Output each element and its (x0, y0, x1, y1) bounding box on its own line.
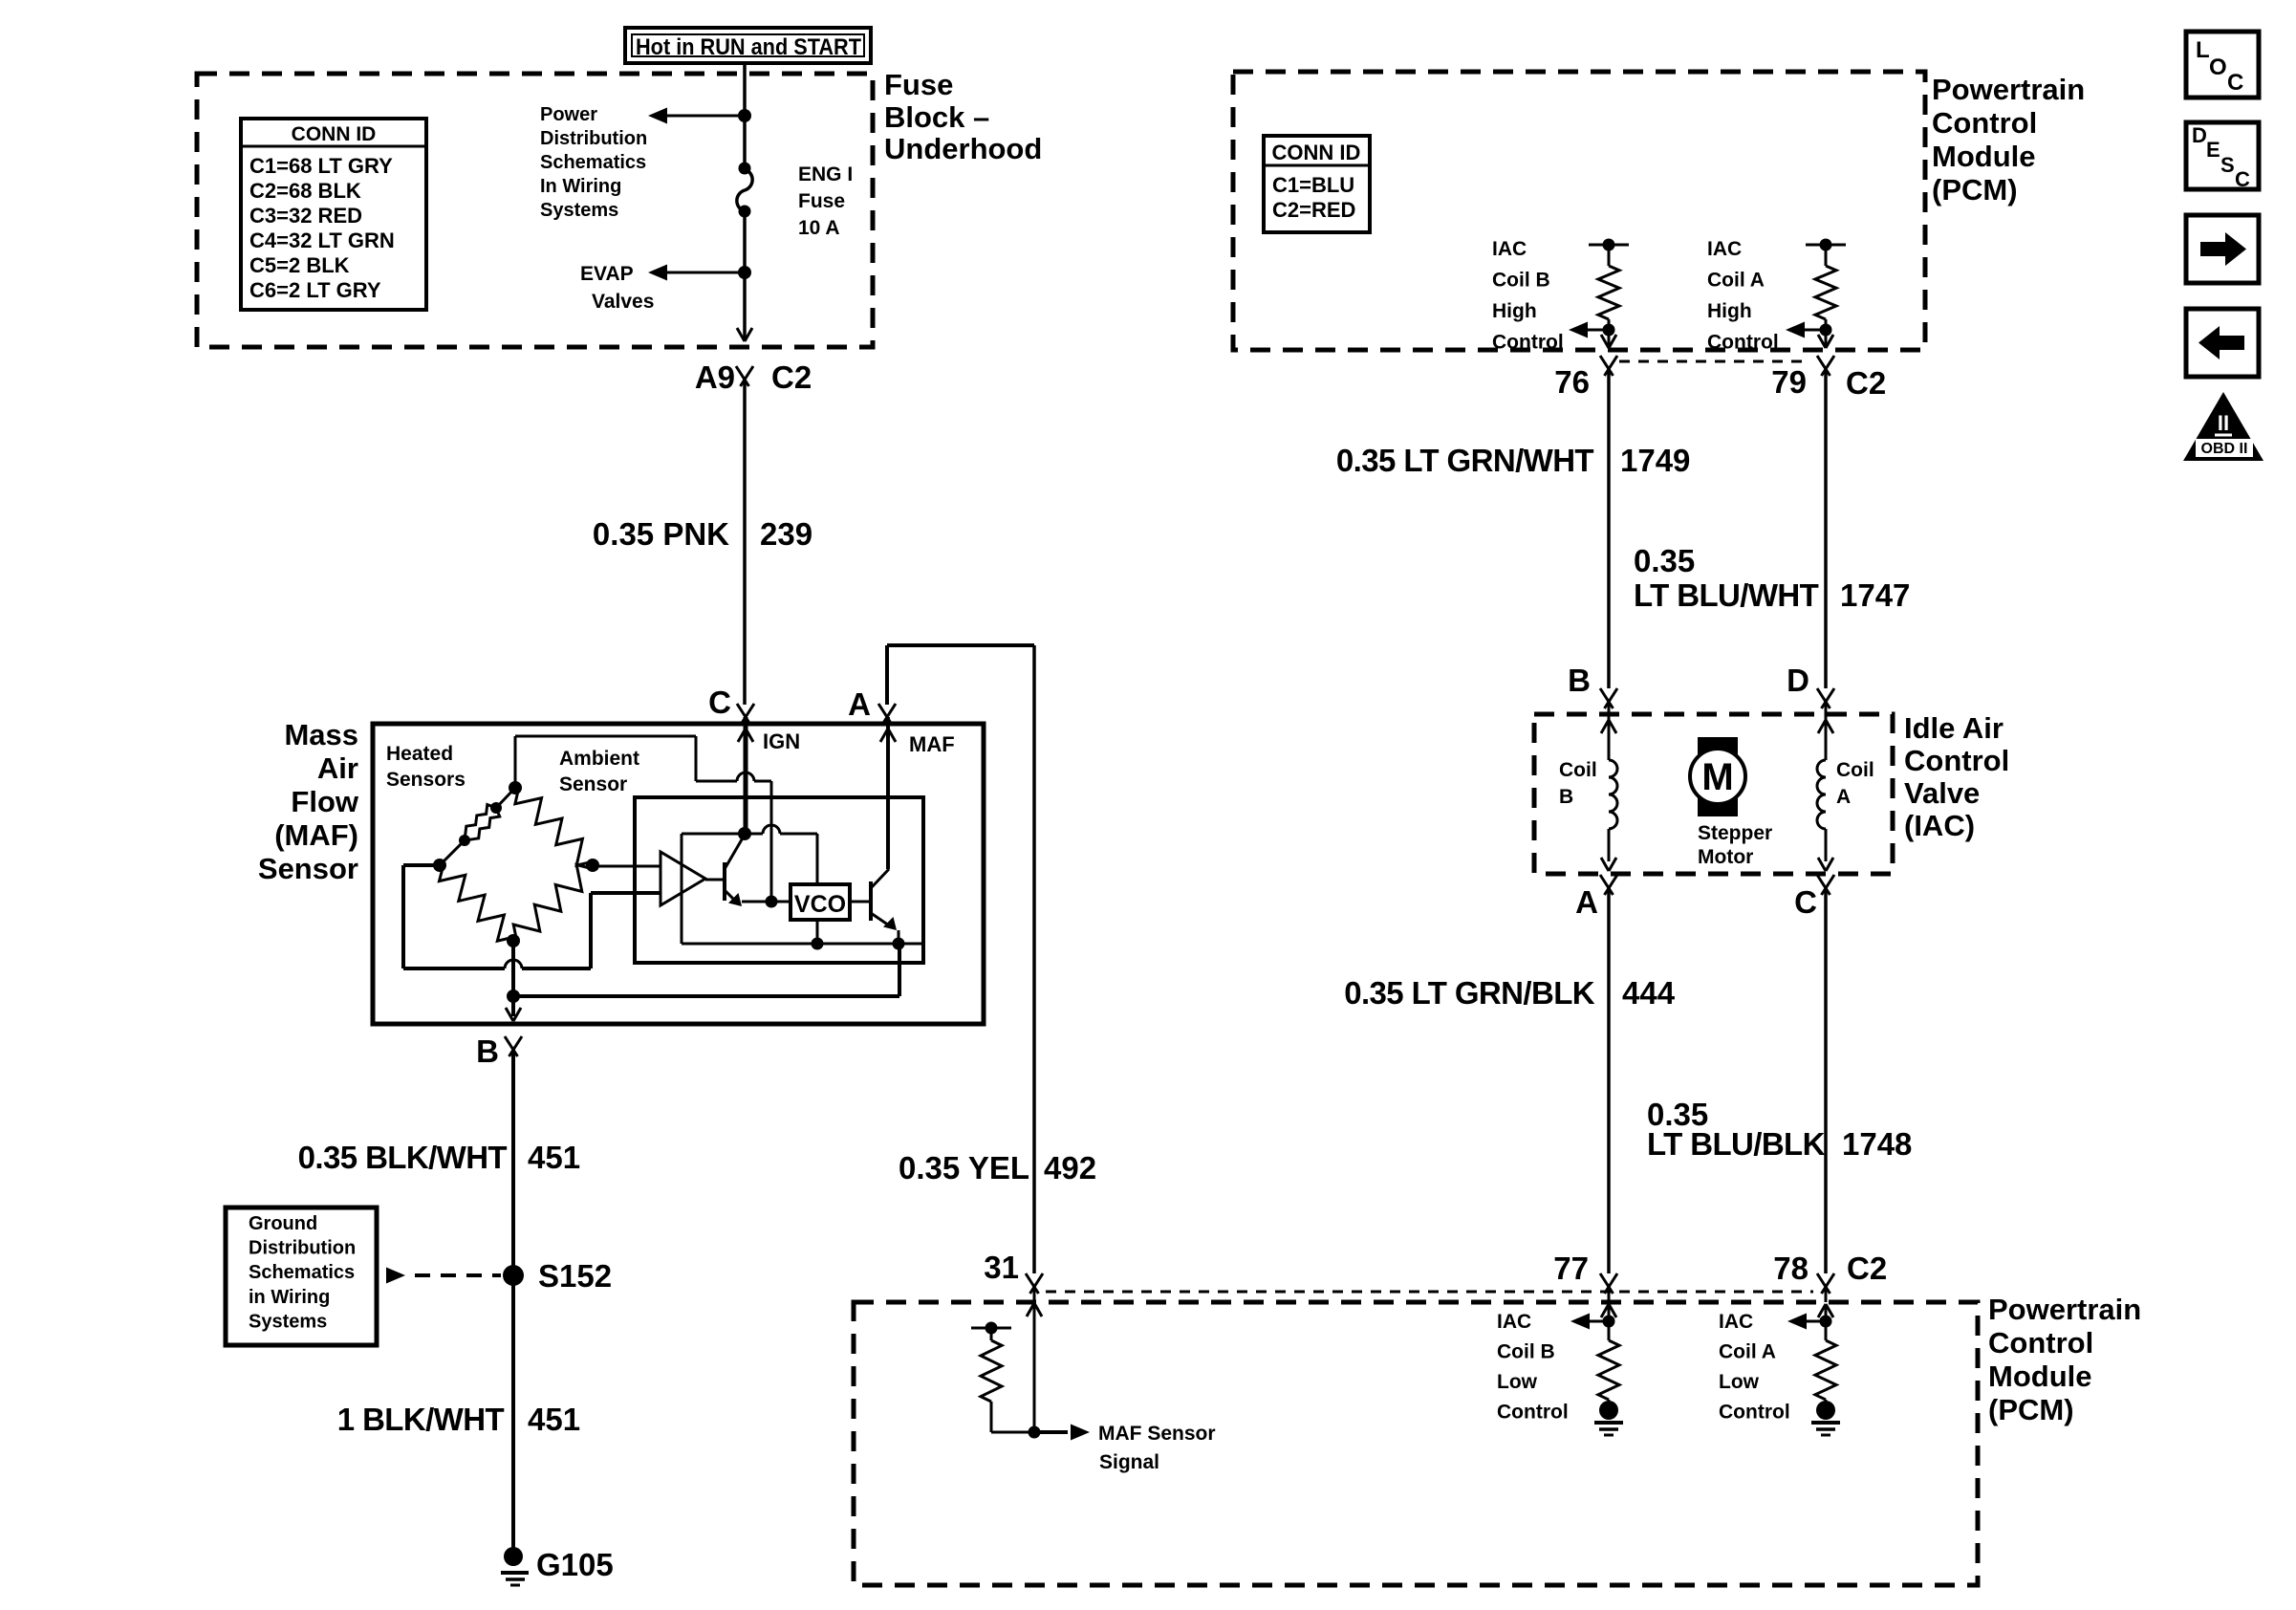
svg-text:78: 78 (1773, 1251, 1809, 1286)
svg-text:Distribution: Distribution (540, 128, 647, 149)
svg-text:Control: Control (1492, 332, 1564, 354)
svg-text:IGN: IGN (763, 729, 800, 753)
svg-text:C2: C2 (1846, 365, 1886, 401)
svg-text:A: A (1836, 786, 1851, 808)
svg-text:B: B (476, 1033, 499, 1069)
svg-text:Coil A: Coil A (1719, 1341, 1776, 1363)
svg-text:Air: Air (317, 751, 358, 785)
svg-text:In Wiring: In Wiring (540, 176, 621, 197)
svg-text:79: 79 (1771, 364, 1807, 400)
svg-text:C3=32 RED: C3=32 RED (249, 204, 362, 228)
svg-text:(PCM): (PCM) (1988, 1393, 2074, 1426)
svg-text:492: 492 (1044, 1150, 1096, 1186)
svg-text:Coil B: Coil B (1492, 270, 1550, 292)
svg-text:B: B (1568, 663, 1591, 698)
svg-text:C: C (2235, 167, 2250, 191)
svg-text:C: C (1794, 884, 1817, 920)
svg-text:MAF: MAF (909, 732, 955, 756)
svg-text:Control: Control (1932, 106, 2037, 140)
svg-text:Control: Control (1719, 1402, 1790, 1424)
svg-text:Stepper: Stepper (1698, 822, 1772, 844)
svg-text:C2=68 BLK: C2=68 BLK (249, 179, 361, 203)
svg-text:0.35 LT GRN/BLK: 0.35 LT GRN/BLK (1344, 975, 1595, 1011)
svg-text:Ambient: Ambient (559, 748, 639, 770)
svg-text:CONN ID: CONN ID (1272, 141, 1361, 164)
svg-text:Distribution: Distribution (249, 1238, 356, 1259)
svg-text:451: 451 (528, 1140, 580, 1175)
svg-text:Control: Control (1707, 332, 1779, 354)
svg-text:1748: 1748 (1842, 1126, 1912, 1162)
svg-text:0.35 PNK: 0.35 PNK (593, 516, 729, 552)
svg-text:II: II (2218, 411, 2229, 435)
svg-text:L: L (2196, 37, 2210, 63)
svg-text:C4=32 LT GRN: C4=32 LT GRN (249, 228, 395, 252)
svg-text:Fuse: Fuse (884, 68, 953, 101)
svg-text:Module: Module (1988, 1360, 2092, 1393)
svg-text:Valve: Valve (1904, 776, 1980, 810)
svg-text:10 A: 10 A (798, 217, 840, 239)
svg-text:Fuse: Fuse (798, 190, 845, 212)
svg-text:S: S (2220, 153, 2235, 177)
svg-text:Low: Low (1497, 1371, 1538, 1393)
svg-text:C2=RED: C2=RED (1272, 198, 1355, 222)
svg-text:C: C (708, 685, 731, 720)
svg-text:Control: Control (1904, 744, 2009, 777)
svg-text:Mass: Mass (284, 718, 358, 751)
svg-text:G105: G105 (536, 1547, 614, 1582)
svg-text:D: D (2192, 123, 2207, 147)
svg-text:VCO: VCO (794, 891, 846, 918)
svg-text:Heated: Heated (386, 743, 453, 765)
svg-text:Flow: Flow (291, 785, 358, 818)
svg-text:Sensors: Sensors (386, 769, 466, 791)
svg-text:Schematics: Schematics (249, 1262, 355, 1283)
svg-text:B: B (1559, 786, 1573, 808)
svg-text:C6=2 LT GRY: C6=2 LT GRY (249, 278, 381, 302)
svg-text:ENG I: ENG I (798, 163, 853, 185)
svg-text:IAC: IAC (1719, 1311, 1753, 1333)
svg-text:in Wiring: in Wiring (249, 1287, 330, 1308)
svg-text:Idle Air: Idle Air (1904, 711, 2004, 745)
svg-text:C1=68 LT GRY: C1=68 LT GRY (249, 154, 393, 178)
svg-text:(IAC): (IAC) (1904, 809, 1975, 842)
svg-text:A9: A9 (695, 359, 735, 395)
svg-text:Coil A: Coil A (1707, 270, 1765, 292)
svg-text:C: C (2227, 70, 2243, 96)
svg-text:A: A (1575, 884, 1598, 920)
svg-text:0.35 BLK/WHT: 0.35 BLK/WHT (298, 1140, 508, 1175)
svg-text:239: 239 (760, 516, 812, 552)
svg-text:Sensor: Sensor (559, 773, 627, 795)
svg-text:1749: 1749 (1620, 443, 1690, 478)
svg-text:E: E (2206, 138, 2220, 162)
svg-text:C1=BLU: C1=BLU (1272, 173, 1354, 197)
svg-text:Valves: Valves (592, 291, 654, 313)
svg-text:444: 444 (1622, 975, 1676, 1011)
svg-text:Coil: Coil (1559, 759, 1597, 781)
svg-text:(MAF): (MAF) (274, 818, 358, 852)
svg-text:Powertrain: Powertrain (1988, 1293, 2141, 1326)
svg-text:A: A (848, 686, 871, 722)
svg-text:0.35: 0.35 (1634, 543, 1695, 578)
svg-text:C5=2 BLK: C5=2 BLK (249, 253, 350, 277)
svg-text:Ground: Ground (249, 1213, 317, 1234)
svg-text:Powertrain: Powertrain (1932, 73, 2085, 106)
svg-text:Systems: Systems (249, 1311, 327, 1332)
svg-text:High: High (1492, 300, 1537, 322)
svg-text:High: High (1707, 300, 1752, 322)
svg-text:O: O (2209, 54, 2227, 80)
svg-text:Systems: Systems (540, 200, 618, 221)
svg-text:OBD II: OBD II (2201, 441, 2248, 457)
svg-text:EVAP: EVAP (580, 263, 634, 285)
svg-text:1 BLK/WHT: 1 BLK/WHT (337, 1402, 505, 1437)
svg-text:Module: Module (1932, 140, 2036, 173)
svg-text:(PCM): (PCM) (1932, 173, 2018, 207)
svg-text:IAC: IAC (1492, 238, 1527, 260)
svg-text:Motor: Motor (1698, 846, 1753, 868)
svg-text:D: D (1787, 663, 1809, 698)
svg-text:0.35 YEL: 0.35 YEL (899, 1150, 1029, 1186)
svg-text:Underhood: Underhood (884, 132, 1042, 165)
svg-text:451: 451 (528, 1402, 580, 1437)
svg-text:Coil: Coil (1836, 759, 1874, 781)
svg-text:Coil B: Coil B (1497, 1341, 1555, 1363)
svg-text:Block –: Block – (884, 100, 989, 134)
svg-text:76: 76 (1554, 364, 1590, 400)
svg-text:LT BLU/WHT: LT BLU/WHT (1634, 577, 1819, 613)
svg-text:LT BLU/BLK: LT BLU/BLK (1647, 1126, 1826, 1162)
svg-text:0.35 LT GRN/WHT: 0.35 LT GRN/WHT (1336, 443, 1594, 478)
svg-text:Control: Control (1988, 1326, 2093, 1360)
svg-text:Hot in RUN and START: Hot in RUN and START (636, 34, 861, 60)
svg-text:IAC: IAC (1707, 238, 1742, 260)
svg-text:MAF Sensor: MAF Sensor (1098, 1423, 1216, 1445)
svg-text:S152: S152 (538, 1258, 612, 1294)
svg-text:Sensor: Sensor (258, 852, 358, 885)
svg-text:C2: C2 (771, 359, 812, 395)
svg-text:Control: Control (1497, 1402, 1569, 1424)
svg-text:C2: C2 (1847, 1251, 1887, 1286)
svg-text:M: M (1701, 756, 1733, 798)
svg-text:IAC: IAC (1497, 1311, 1531, 1333)
svg-text:CONN ID: CONN ID (292, 123, 377, 145)
svg-text:1747: 1747 (1840, 577, 1910, 613)
svg-text:Low: Low (1719, 1371, 1760, 1393)
svg-text:31: 31 (984, 1250, 1019, 1285)
svg-text:Signal: Signal (1099, 1451, 1159, 1473)
svg-text:Power: Power (540, 104, 597, 125)
svg-text:Schematics: Schematics (540, 152, 646, 173)
svg-text:77: 77 (1553, 1251, 1589, 1286)
